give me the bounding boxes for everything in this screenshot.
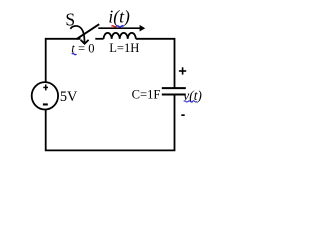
- switch closing arc arrow: [70, 26, 84, 42]
- capacitor C1 top plate: [162, 87, 186, 89]
- svg-text:i(t): i(t): [108, 7, 130, 27]
- svg-text:S: S: [65, 9, 75, 29]
- current arrow head: [140, 25, 146, 32]
- capacitor plus sign: [179, 67, 186, 74]
- switch arrowhead: [81, 40, 89, 44]
- svg-text:L=1H: L=1H: [109, 41, 139, 55]
- inductor L1 coil: [104, 33, 136, 39]
- svg-text:C=1F: C=1F: [132, 88, 161, 102]
- voltage source V1 circle: [32, 82, 58, 109]
- switch S blade: [76, 24, 99, 39]
- capacitor C1 bottom plate: [162, 94, 186, 96]
- blue squiggle under t: [72, 54, 77, 55]
- blue squiggle under (t: [116, 26, 123, 27]
- wire bottom loop: source bottom, bottom wire, right wire up to capacitor: [46, 95, 175, 151]
- wire switch to inductor stub: [95, 38, 103, 40]
- wire inductor to top-right corner and down to capacitor: [136, 39, 175, 88]
- capacitor minus sign: [181, 114, 184, 116]
- svg-text:5V: 5V: [60, 89, 78, 105]
- voltage source minus sign: [43, 103, 48, 105]
- blue squiggle under v: [184, 101, 197, 102]
- voltage source plus sign: [43, 85, 48, 91]
- red squiggle under i: [112, 26, 117, 27]
- svg-text:t = 0: t = 0: [71, 41, 94, 55]
- current arrow i(t) shaft: [98, 27, 140, 29]
- wire top-left segment and left wire down to source: [46, 39, 81, 83]
